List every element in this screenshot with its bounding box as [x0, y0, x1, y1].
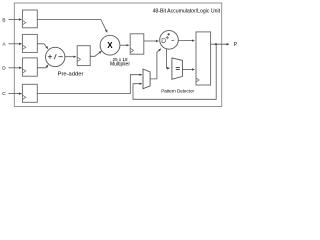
svg-text:Pattern Detector: Pattern Detector	[161, 89, 194, 94]
svg-text:X: X	[107, 41, 113, 50]
svg-text:B: B	[2, 17, 5, 22]
svg-text:Pre-adder: Pre-adder	[58, 71, 84, 77]
svg-text:Multiplier: Multiplier	[110, 61, 130, 67]
svg-text:48-Bit Accumulator/Logic Unit: 48-Bit Accumulator/Logic Unit	[153, 8, 221, 14]
